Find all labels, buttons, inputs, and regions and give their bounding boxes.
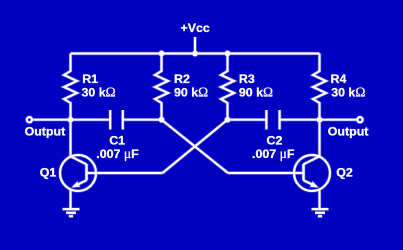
svg-text:+Vcc: +Vcc	[181, 21, 210, 35]
svg-text:R4: R4	[331, 72, 347, 86]
svg-text:R2: R2	[174, 72, 190, 86]
svg-text:30 kΩ: 30 kΩ	[331, 85, 365, 100]
svg-text:Output: Output	[328, 124, 369, 138]
svg-text:.007 μF: .007 μF	[96, 146, 139, 161]
svg-text:Output: Output	[25, 124, 66, 138]
svg-text:90 kΩ: 90 kΩ	[239, 85, 273, 100]
svg-text:30 kΩ: 30 kΩ	[82, 85, 116, 100]
svg-text:R3: R3	[239, 72, 255, 86]
svg-text:R1: R1	[82, 72, 98, 86]
svg-text:C1: C1	[109, 134, 125, 148]
svg-text:90 kΩ: 90 kΩ	[174, 85, 208, 100]
svg-text:Q1: Q1	[40, 165, 57, 179]
svg-text:Q2: Q2	[336, 165, 353, 179]
soft halo pass of artwork	[27, 37, 363, 216]
svg-text:.007 μF: .007 μF	[252, 146, 295, 161]
crisp artwork pass	[27, 37, 363, 216]
